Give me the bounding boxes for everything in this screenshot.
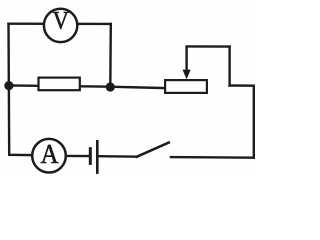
node B (right junction dot): [106, 82, 115, 91]
wire right vertical of voltmeter loop: [109, 24, 112, 87]
wire right outer vertical: [253, 86, 255, 158]
battery cell: short negative plate: [89, 147, 92, 165]
wire battery to switch: [99, 155, 137, 158]
wire switch to bottom-right corner: [171, 156, 254, 159]
switch S blade: [137, 143, 169, 157]
wire top-left horizontal: [9, 23, 111, 26]
ammeter A1: [32, 139, 66, 173]
wire bottom-left to ammeter: [9, 154, 31, 157]
battery cell: long positive plate: [96, 140, 99, 174]
wire node B to rheostat: [110, 87, 166, 88]
node A (left junction dot): [4, 81, 13, 90]
wire middle horizontal (node A to node B): [9, 85, 110, 86]
resistor R1: [39, 78, 80, 91]
wire right staircase horizontal: [230, 84, 254, 87]
rheostat R2 body: [165, 80, 207, 93]
wire right staircase vertical 1: [228, 47, 230, 86]
voltmeter V: [44, 9, 77, 42]
wire rheostat wiper to top-right corner: [187, 45, 230, 48]
wire left vertical: [7, 24, 10, 155]
rheostat wiper arrow: [183, 46, 191, 79]
wire ammeter to battery: [66, 155, 88, 158]
